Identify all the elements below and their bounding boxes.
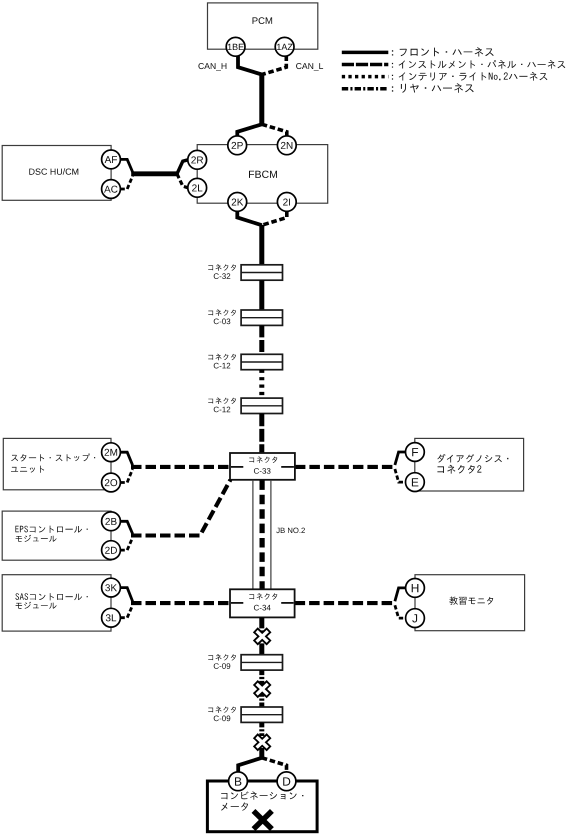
wire C-12 to C-33 (instrument panel harness) (259, 414, 264, 454)
pin 3L (102, 608, 121, 627)
wire stub pin 2B (solid) (120, 521, 132, 534)
wire C-12 to C-12 (interior light No.2 harness) (259, 370, 264, 399)
fault mark X in meter (254, 811, 272, 829)
connector C-32 (241, 265, 282, 280)
DSC HU/CM box (2, 146, 111, 201)
pin E (406, 473, 425, 492)
label JB NO.2 (276, 528, 305, 534)
combination meter box (207, 781, 317, 832)
wire stub pin AC (dashed) (120, 176, 132, 189)
wire CAN_H from pin 1BE (front harness) (238, 56, 262, 75)
connector C-34 box (230, 589, 295, 617)
pin J (406, 609, 425, 628)
wire start-stop to C-33 (instrument panel harness) (131, 465, 230, 469)
pin 2P (228, 136, 247, 155)
wire from pin 2I (dashed) (262, 212, 287, 226)
wire to pin D (dashed) (262, 758, 287, 772)
wire SAS to C-34 (instrument panel harness) (131, 601, 230, 605)
legend label: front harness (392, 47, 494, 56)
connector C-12 upper (241, 354, 282, 369)
wire stub pin E (dashed) (395, 469, 406, 482)
wire trunk PCM to FBCM (259, 74, 264, 125)
FBCM box (197, 145, 328, 204)
crossing mark X3 (255, 736, 269, 749)
connector C-33 box (230, 453, 295, 480)
pin 2O (102, 473, 121, 492)
pin H (406, 579, 425, 598)
legend label: instrument panel harness (392, 60, 565, 69)
crossing mark X2 (255, 683, 269, 696)
label connector C-12 lower (208, 397, 236, 404)
wire stub pin 2M (solid) (120, 452, 132, 465)
wire C-32 to C-03 (front harness) (259, 280, 264, 310)
wire to pin 2P (solid) (237, 124, 261, 136)
EPS control module box (2, 511, 111, 560)
pin AC (102, 180, 121, 199)
pin 3K (102, 578, 121, 597)
wire to pin 2L (dashed) (177, 174, 188, 188)
wire trunk to meter (259, 748, 264, 758)
label CAN_H (198, 63, 226, 71)
connector C-12 lower (241, 398, 282, 413)
crossing mark X1 (255, 630, 269, 643)
pin 2L (188, 178, 207, 197)
pin 2R (188, 150, 207, 169)
wire EPS to C-33 (instrument panel harness) (131, 480, 230, 536)
wire to pin 2R (solid) (177, 160, 188, 174)
wire stub pin F (solid) (395, 452, 406, 465)
pin AF (102, 150, 121, 169)
SAS control module box (2, 575, 111, 631)
wire C-03 to C-12 (instrument panel harness) (259, 325, 264, 354)
pin 1AZ (275, 37, 294, 56)
pin F (406, 443, 425, 462)
wire to pin B (solid) (238, 758, 262, 772)
wire CAN_L from pin 1AZ (instrument panel harness) (262, 56, 287, 75)
wire stub pin H (solid) (395, 588, 406, 601)
pin D (277, 772, 296, 791)
legend line: rear harness (342, 87, 389, 91)
label connector C-09 upper (208, 654, 236, 661)
connector C-09 upper (241, 655, 282, 670)
legend line: instrument panel harness (342, 63, 389, 67)
pin 2D (102, 541, 121, 560)
wire stub pin AF (solid) (120, 159, 132, 172)
pin 2I (277, 193, 296, 212)
legend line: front harness (342, 51, 389, 55)
legend line: interior light No.2 harness (342, 75, 389, 79)
pin 2M (102, 443, 121, 462)
wire stub pin 3L (dashed) (120, 605, 132, 618)
wire C-09 to C-09 (rear harness) (259, 670, 264, 707)
wire C-33 to diagnosis (instrument panel harness) (295, 465, 395, 469)
JB NO.2 body (252, 480, 254, 590)
wire to pin 2N (dashed) (262, 124, 287, 136)
wire from pin 2K (solid) (237, 212, 261, 226)
label connector C-12 upper (208, 354, 236, 361)
pin 2K (228, 193, 247, 212)
wire C-09 down (rear harness) (259, 722, 264, 736)
wire stub pin 3K (solid) (120, 588, 132, 602)
label connector C-03 (208, 309, 236, 316)
wire DSC to FBCM (front harness) (131, 171, 178, 176)
wire C-34 to C-09 (instrument panel harness) (259, 617, 264, 654)
legend label: interior light No.2 harness (392, 72, 548, 81)
wire trunk to C-32 (front harness) (259, 225, 264, 265)
training monitor box (415, 575, 525, 631)
label CAN_L (296, 63, 323, 71)
wire C-34 to training monitor (instrument panel harness) (295, 601, 396, 605)
PCM box (208, 3, 318, 49)
pin 2N (277, 136, 296, 155)
wire C-33 to C-34 through JB NO.2 (dashed) (260, 480, 265, 589)
diagnosis connector 2 box (415, 438, 524, 491)
legend label: rear harness (392, 83, 474, 93)
pin 1BE (226, 37, 245, 56)
wire stub pin 2D (dashed) (120, 538, 132, 551)
connector C-03 (241, 310, 282, 325)
pin 2B (102, 512, 121, 531)
label connector C-09 lower (208, 706, 236, 713)
wire stub pin 2O (dashed) (120, 469, 132, 483)
pin B (229, 772, 248, 791)
label connector C-32 (208, 264, 236, 271)
wire stub pin J (dashed) (395, 605, 406, 618)
start-stop unit box (3, 438, 111, 489)
connector C-09 lower (241, 707, 282, 722)
